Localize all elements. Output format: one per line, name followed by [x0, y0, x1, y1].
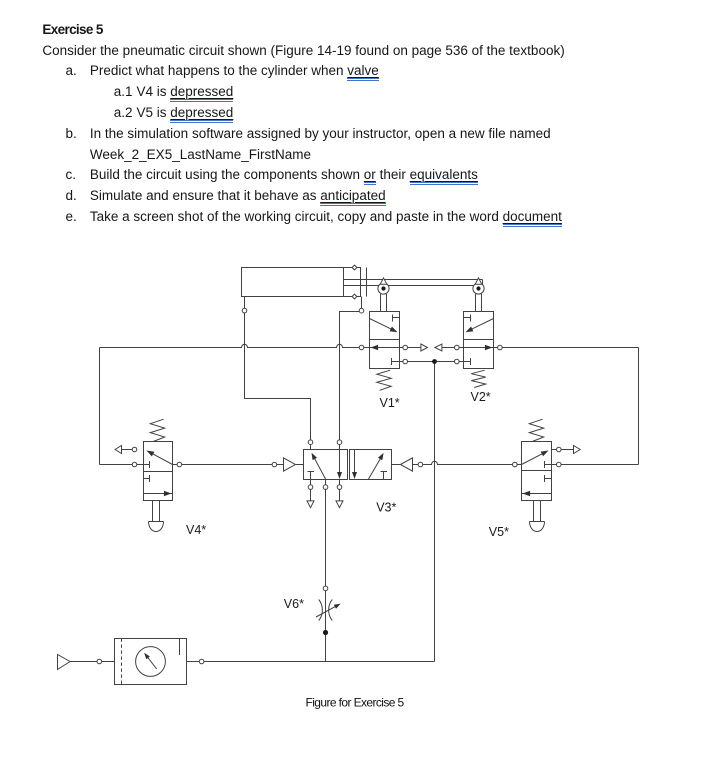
svg-text:Figure for Exercise 5: Figure for Exercise 5: [306, 695, 405, 709]
push button of V4: [149, 501, 164, 532]
spring of V5: [529, 419, 543, 441]
wire: supply riser from junction down to bottom line: [434, 362, 436, 662]
wire: throttle V6 down to bottom line: [325, 621, 327, 662]
valve V3 (5/2 double air pilot valve): [304, 450, 392, 480]
check symbol left of V2: [435, 344, 442, 351]
port connection circles: [97, 308, 561, 663]
spring of V2: [471, 370, 485, 387]
exhaust stub and triangle under V3 left: [307, 480, 314, 508]
svg-text:V2*: V2*: [471, 390, 491, 404]
wire: left bus corner to V4 left port: [100, 464, 144, 466]
cylinder (double-acting, rod with cam bar): [242, 268, 483, 297]
pilot triangle left of V3: [284, 458, 304, 471]
valve V2 (3/2 roller valve, spring return, mirrored): [464, 312, 494, 369]
cylinder port diamond (bottom): [352, 294, 357, 299]
compressed air source: [58, 655, 71, 670]
svg-text:V1*: V1*: [380, 396, 400, 410]
exhaust stub and triangle under V3 right: [336, 480, 343, 508]
svg-text:V6*: V6*: [284, 597, 304, 611]
wire: V3 right pilot to V5 left port with hop over supply riser: [413, 461, 522, 464]
check symbol right of V1: [421, 344, 428, 351]
air service unit with pressure gauge: [115, 639, 187, 685]
valve V5 (3/2 push-button valve, spring return, mirrored): [522, 442, 552, 501]
spring of V4: [150, 419, 164, 441]
wire: right bus vertical: [638, 348, 640, 465]
roller actuator of V2: [473, 278, 484, 312]
wire: supply link between V1 and V2 lower ports: [400, 361, 464, 363]
wire: cylinder cap-side port down, jog right, down to V3 top-left port: [245, 297, 311, 450]
exhaust of V4 (left): [115, 446, 134, 454]
svg-text:V5*: V5*: [489, 525, 509, 539]
wire: right bus corner to V5 right port: [552, 464, 639, 466]
junction below V6: [323, 630, 328, 635]
exhaust of V5 (right): [552, 446, 581, 454]
wire: air source to service unit: [70, 661, 115, 663]
wire: cylinder rod-side port left then down to V3 top-right port: [340, 297, 362, 450]
svg-text:V3*: V3*: [376, 501, 396, 515]
cylinder port diamond (top): [352, 265, 357, 270]
valve V1 (3/2 roller valve, spring return): [370, 312, 400, 369]
pilot triangle right of V3: [392, 458, 413, 471]
throttle valve V6 (adjustable flow control): [316, 600, 341, 621]
wire: V4 output to V3 left pilot: [173, 464, 284, 466]
push button of V5: [530, 501, 545, 532]
wire: bottom supply line from service unit to riser corner: [187, 661, 435, 663]
valve V4 (3/2 push-button valve, spring return): [144, 442, 173, 501]
junction: supply tee between V1 and V2: [432, 359, 437, 364]
spring of V1: [377, 370, 391, 390]
wire: V3 supply port down to throttle V6: [325, 480, 327, 600]
svg-text:V4*: V4*: [186, 523, 206, 537]
roller actuator of V1: [378, 278, 389, 312]
wire: left bus vertical: [99, 348, 101, 465]
wire: top bus line y=347 with hops over the two cylinder drop lines: [100, 344, 639, 347]
